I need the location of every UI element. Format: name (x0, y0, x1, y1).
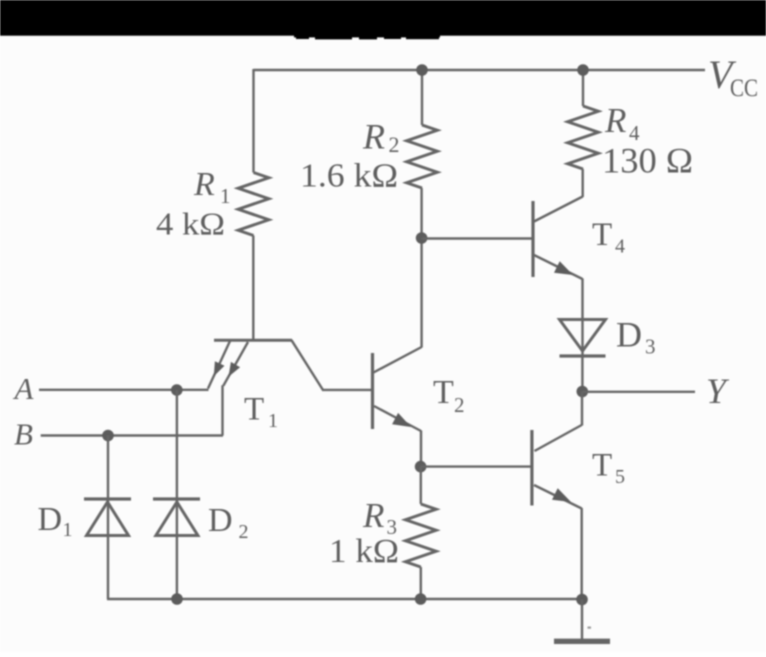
transistor T5 collector diagonal (535, 425, 582, 451)
wire T5 emitter drop to ground rail (581, 508, 583, 600)
svg-text:2: 2 (239, 521, 249, 543)
transistor T4 emitter diagonal (534, 255, 583, 279)
transistor T1 emitter 1 line (208, 341, 230, 389)
resistor R1 4k (238, 173, 269, 236)
diode D1 triangle (87, 502, 129, 536)
resistor R4 130ohm (568, 106, 599, 169)
svg-text:5: 5 (615, 466, 625, 488)
diode D2 cathode bar (153, 497, 200, 500)
transistor T5 emitter diagonal (534, 485, 582, 509)
resistor R3 1k (406, 504, 437, 567)
wire ground stem (581, 600, 583, 640)
wire Vcc top rail (254, 69, 706, 71)
svg-text:2: 2 (389, 132, 400, 157)
wire R2 top lead (421, 69, 423, 125)
node R3 bottom junction dot (415, 593, 427, 605)
diode D2 triangle (156, 502, 198, 536)
svg-text:T: T (433, 374, 454, 411)
svg-text:R: R (362, 496, 384, 535)
wire R3 top lead (420, 467, 422, 504)
svg-text:4 kΩ: 4 kΩ (156, 206, 225, 242)
node top rail R2 junction dot (416, 64, 428, 76)
wire D2 anode column (A line down to bottom rail) (176, 390, 178, 599)
svg-text:A: A (13, 371, 35, 406)
wire D1 anode column (B line down to bottom rail) (107, 436, 109, 600)
resistor R2 1.6k (407, 125, 438, 188)
node R2/T4 base junction dot (416, 232, 428, 244)
transistor T1 base bar (214, 339, 292, 342)
wire R2 bottom / T2 collector column (420, 188, 422, 348)
svg-text:T: T (244, 392, 264, 428)
wire Y node down to T5 collector (581, 392, 583, 426)
wire bottom ground rail (107, 598, 582, 600)
transistor T2 body bar (371, 353, 374, 429)
wire through D3 (581, 320, 583, 357)
diode D3 triangle (560, 320, 606, 352)
cropped header text glyph bottoms (294, 34, 440, 37)
diode D1 cathode bar (84, 497, 131, 500)
node T2 emitter / T5 base / R3 junction dot (415, 461, 427, 473)
wire R4 top lead (582, 69, 584, 106)
cropped page header black bar (0, 0, 766, 36)
wire R3 bottom lead (420, 567, 422, 599)
svg-text:130 Ω: 130 Ω (602, 141, 693, 181)
transistor T4 emitter arrowhead (554, 261, 573, 275)
wire T1 emitter 2 drop to B line (221, 385, 223, 435)
wire Y output line (582, 391, 695, 393)
node A / D2 junction dot (171, 384, 183, 396)
svg-text:R: R (362, 117, 385, 157)
wire T1 collector to T2 base (322, 389, 373, 391)
svg-text:R: R (193, 166, 215, 203)
transistor T1 collector diagonal (292, 340, 323, 390)
diode D3 cathode bar (560, 354, 606, 357)
transistor T1 emitter 2 arrowhead (229, 362, 241, 377)
svg-text:1: 1 (268, 410, 278, 432)
svg-text:R: R (604, 101, 626, 140)
transistor T1 emitter 2 line (223, 342, 248, 386)
transistor T5 body bar (530, 430, 533, 506)
ground symbol bar (554, 639, 610, 644)
transistor T2 emitter arrowhead (392, 413, 411, 427)
svg-text:1: 1 (220, 184, 231, 208)
node top rail R4 junction dot (577, 64, 589, 76)
speck artifact above ground bar (588, 627, 592, 629)
wire R1 top lead (252, 69, 254, 173)
wire input A line (39, 389, 209, 391)
svg-text:T: T (592, 217, 612, 253)
wire input B line (41, 434, 223, 436)
svg-text:1 kΩ: 1 kΩ (329, 533, 399, 570)
wire R1 bottom to T1 base (252, 236, 254, 341)
node ground rail T5 junction dot (576, 594, 588, 606)
transistor T2 collector diagonal (374, 347, 422, 373)
node D2 bottom junction dot (171, 593, 183, 605)
node B / D1 junction dot (102, 430, 114, 442)
svg-text:D: D (616, 315, 642, 355)
svg-text:3: 3 (645, 335, 656, 359)
svg-text:T: T (592, 448, 612, 484)
wire T4 base (422, 237, 533, 239)
svg-text:B: B (14, 417, 33, 452)
svg-text:1: 1 (63, 519, 73, 541)
node Y junction dot (577, 386, 589, 398)
wire T2 emitter drop (420, 431, 422, 467)
svg-text:2: 2 (454, 393, 465, 417)
wire T5 base (421, 465, 531, 467)
wire T4 emitter to D3 (581, 279, 583, 321)
transistor T2 emitter line (374, 406, 421, 431)
transistor T1 emitter 1 arrowhead (214, 361, 225, 376)
svg-text:D: D (208, 502, 233, 539)
wire D3 cathode to Y node (581, 356, 583, 392)
transistor T5 emitter arrowhead (552, 488, 571, 502)
svg-text:1.6 kΩ: 1.6 kΩ (300, 158, 398, 195)
svg-text:CC: CC (730, 75, 758, 102)
transistor T4 collector diagonal (534, 197, 583, 222)
wire R4 bottom lead (582, 169, 584, 197)
svg-text:4: 4 (615, 236, 625, 258)
svg-text:D: D (38, 501, 63, 538)
transistor T4 body bar (531, 201, 534, 277)
